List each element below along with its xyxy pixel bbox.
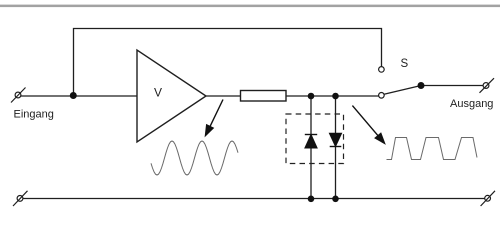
svg-text:Ausgang: Ausgang bbox=[450, 98, 493, 110]
svg-text:S: S bbox=[401, 58, 409, 70]
svg-text:V: V bbox=[154, 86, 162, 100]
svg-text:Eingang: Eingang bbox=[14, 109, 54, 121]
